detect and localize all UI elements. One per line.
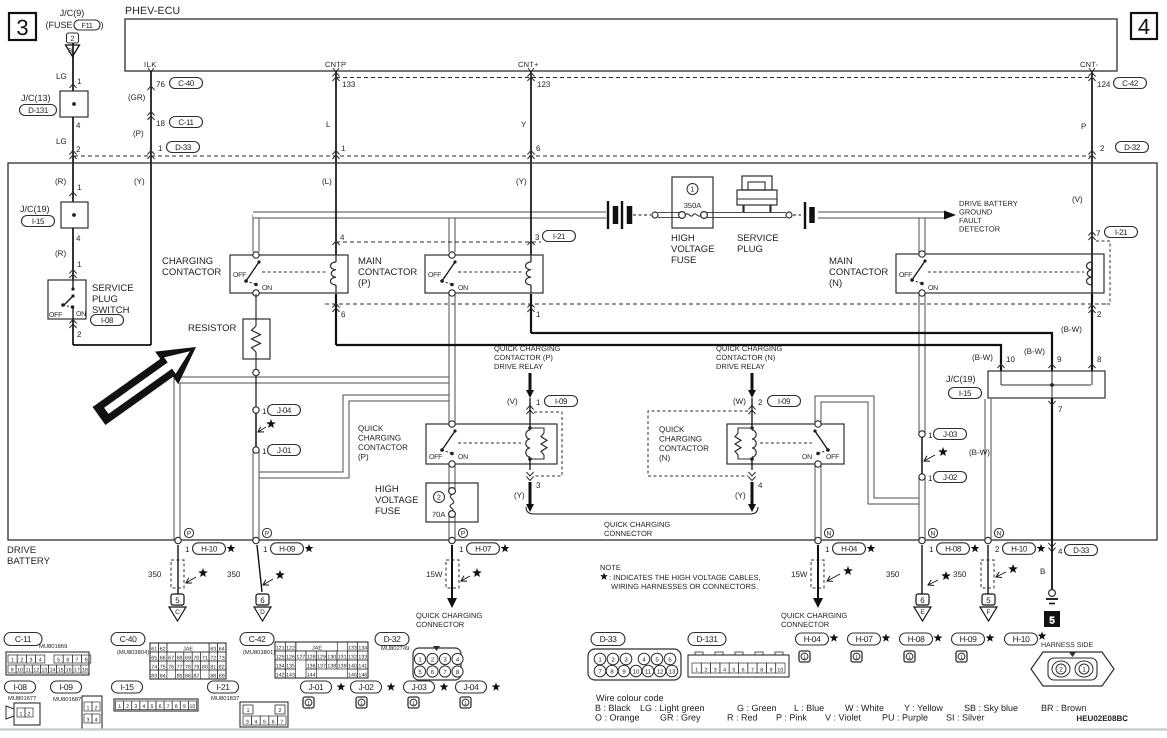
ECU pin exit mark at x=1092 [1089, 68, 1095, 72]
svg-text:MU801869: MU801869 [39, 643, 67, 650]
svg-text:133: 133 [348, 645, 357, 651]
svg-text:1: 1 [263, 545, 268, 554]
svg-text:(Y): (Y) [134, 177, 145, 186]
connector J-03 terminal [919, 431, 925, 437]
svg-text:9: 9 [183, 704, 186, 710]
svg-text:6: 6 [920, 596, 925, 605]
svg-text:9: 9 [1057, 355, 1062, 364]
dashed battery continuation [633, 214, 651, 216]
QC contactor N dashed label box [648, 411, 748, 476]
svg-text:7: 7 [167, 704, 170, 710]
svg-text:Y : Yellow: Y : Yellow [904, 703, 943, 713]
charging contactor internal dashed link [262, 271, 327, 273]
svg-text:(MU803804): (MU803804) [117, 649, 149, 656]
svg-text:E: E [920, 609, 925, 616]
svg-text:2: 2 [28, 711, 31, 717]
svg-text:7: 7 [280, 719, 283, 725]
svg-text:HEU02E08BC: HEU02E08BC [1076, 714, 1128, 723]
svg-text:1: 1 [87, 705, 90, 711]
svg-text:69: 69 [185, 655, 191, 661]
battery bar right [804, 202, 806, 229]
svg-text:4: 4 [1058, 547, 1063, 556]
svg-text:72: 72 [210, 655, 216, 661]
svg-text:(R): (R) [55, 177, 66, 186]
connector H-08 label [900, 633, 933, 645]
svg-text:QUICK CHARGING: QUICK CHARGING [604, 520, 670, 529]
svg-text:): ) [101, 20, 104, 30]
svg-text:V : Violet: V : Violet [825, 713, 861, 723]
svg-text:3: 3 [536, 481, 541, 490]
svg-text:I-09: I-09 [778, 397, 791, 406]
wire charging contactor coil to J/C(19) pin 10 (B-W) [335, 294, 337, 345]
svg-text:5: 5 [732, 667, 735, 673]
svg-text:D-33: D-33 [1073, 546, 1090, 555]
svg-text:123: 123 [537, 80, 551, 89]
svg-text:1: 1 [246, 708, 249, 714]
svg-text:CHARGING: CHARGING [358, 434, 401, 443]
svg-text:H-09: H-09 [960, 634, 977, 644]
svg-text:3: 3 [535, 233, 540, 242]
svg-text:84: 84 [160, 673, 166, 679]
main contactor P box [425, 255, 543, 293]
svg-text:MU801687: MU801687 [53, 696, 81, 703]
svg-text:BR : Brown: BR : Brown [1041, 703, 1087, 713]
svg-text:4: 4 [76, 234, 81, 243]
svg-text:6: 6 [66, 657, 69, 663]
svg-text:350A: 350A [684, 201, 702, 210]
svg-text:63: 63 [210, 646, 216, 652]
svg-text:ON: ON [928, 285, 938, 292]
svg-text:13: 13 [41, 667, 47, 673]
svg-text:124: 124 [1097, 80, 1111, 89]
svg-text:62: 62 [160, 646, 166, 652]
svg-text:L : Blue: L : Blue [794, 703, 824, 713]
wire main contactor P coil to J/C(19) pin 9 (B-W) [530, 294, 532, 333]
battery cell bars left [607, 201, 609, 229]
svg-text:D-32: D-32 [384, 634, 401, 644]
svg-text:1: 1 [536, 398, 541, 407]
svg-text:144: 144 [307, 672, 316, 678]
svg-text:130: 130 [327, 654, 336, 660]
svg-text:F: F [987, 609, 991, 616]
svg-text:CHARGING: CHARGING [659, 435, 702, 444]
svg-text:121: 121 [276, 645, 285, 651]
svg-text:(V): (V) [507, 397, 518, 406]
svg-text:1: 1 [1082, 666, 1086, 673]
main contactor P internal dashed link [458, 271, 523, 273]
pin number 123 [527, 73, 534, 82]
svg-text:1: 1 [908, 655, 911, 661]
arrow to drive battery ground fault detector [944, 211, 956, 220]
connector J-02 terminal [919, 474, 925, 480]
svg-text:C-11: C-11 [178, 118, 194, 127]
junction terminal below resistor [253, 369, 259, 375]
svg-text:(B-W): (B-W) [1024, 347, 1045, 356]
svg-text:D-131: D-131 [696, 634, 718, 644]
connector I-09 pinout [51, 681, 82, 693]
svg-text:4: 4 [39, 657, 42, 663]
svg-text:CNT-: CNT- [1080, 60, 1099, 69]
svg-text:OFF: OFF [49, 312, 62, 319]
svg-text:ON: ON [802, 454, 812, 461]
hollow cable QC-N switch top loop to H-08 line [818, 399, 920, 501]
svg-text:10: 10 [777, 667, 783, 673]
svg-text:125: 125 [276, 654, 285, 660]
junction block J/C(19) I-15 left [61, 202, 88, 228]
arrow to quick charging connector H-07 [447, 598, 457, 608]
svg-text:85: 85 [177, 673, 183, 679]
page reference 6 box and triangle E for H-08 [916, 594, 929, 605]
main contactor P coil [530, 255, 532, 262]
svg-text:4: 4 [95, 717, 98, 723]
svg-text:I-15: I-15 [32, 217, 45, 226]
svg-text:WIRING HARNESSES OR CONNECTORS: WIRING HARNESSES OR CONNECTORS. [611, 582, 758, 591]
svg-text:15W: 15W [426, 570, 443, 579]
wire service plug switch to ILK corner [72, 319, 74, 345]
svg-text:H-07: H-07 [475, 545, 492, 554]
svg-text:MAIN: MAIN [829, 256, 853, 267]
svg-text:H-08: H-08 [908, 634, 925, 644]
svg-text:136: 136 [307, 663, 316, 669]
svg-text:1: 1 [536, 310, 541, 319]
svg-text:FUSE: FUSE [375, 506, 400, 517]
svg-text:J-04: J-04 [277, 406, 292, 415]
svg-text:(MU803801): (MU803801) [243, 649, 275, 656]
svg-text:I-15: I-15 [959, 389, 972, 398]
quick charging connector brace [526, 507, 758, 514]
svg-text:J/C(13): J/C(13) [21, 93, 51, 103]
hollow cable main P switch to quick charging contactor P switch [449, 294, 456, 423]
svg-text:L: L [326, 120, 331, 129]
connector J-04 label [456, 681, 487, 693]
svg-text:(V): (V) [1072, 195, 1083, 204]
svg-text:6: 6 [742, 667, 745, 673]
main contactor N switch [919, 251, 925, 257]
svg-text:3: 3 [30, 657, 33, 663]
svg-text:134: 134 [276, 663, 285, 669]
svg-text:(P): (P) [358, 278, 371, 289]
hollow cable battery to high voltage fuse 1 [658, 212, 680, 218]
H-07 crossing (P) [449, 537, 455, 543]
svg-text:OFF: OFF [428, 272, 441, 279]
wire resistor to bus junction [255, 359, 257, 369]
svg-text:I-08: I-08 [101, 316, 114, 325]
svg-text:87: 87 [193, 673, 199, 679]
svg-text:15W: 15W [791, 570, 808, 579]
svg-text:W : White: W : White [845, 703, 884, 713]
svg-text:I-15: I-15 [120, 682, 134, 692]
QC contactor N switch (mirrored) [815, 421, 821, 427]
svg-text:350: 350 [148, 570, 162, 579]
svg-text:Y: Y [521, 120, 527, 129]
svg-text:5: 5 [1049, 616, 1055, 627]
wire CNT- vertical (P/V) [1091, 71, 1093, 306]
svg-text:129: 129 [317, 654, 326, 660]
hollow cable QC-N switch to H-04 [815, 465, 822, 540]
svg-text:143: 143 [286, 672, 295, 678]
wire CNT+ vertical (Y) [530, 71, 532, 255]
svg-text:CONNECTOR: CONNECTOR [416, 620, 465, 629]
svg-text:17: 17 [74, 667, 80, 673]
connector D-33 pinout [591, 633, 625, 646]
wire ILK vertical (GR/P/Y) [150, 71, 152, 345]
svg-text:1: 1 [77, 260, 82, 269]
svg-text:CONTACTOR (N): CONTACTOR (N) [716, 353, 776, 362]
svg-text:D-32: D-32 [1124, 143, 1141, 152]
svg-text:I-09: I-09 [555, 397, 568, 406]
connector dashed line H connectors (y=304) [325, 303, 1110, 305]
svg-text:12: 12 [33, 667, 39, 673]
svg-text:NOTE: NOTE [600, 563, 621, 572]
svg-text:3: 3 [16, 15, 28, 40]
svg-text:OFF: OFF [826, 454, 839, 461]
QC contactor P box [426, 424, 557, 464]
QC contactor N box [727, 424, 844, 464]
svg-text:82: 82 [219, 664, 225, 670]
svg-text:11: 11 [645, 669, 652, 676]
svg-text:1: 1 [464, 701, 467, 707]
ground symbol [1049, 590, 1056, 597]
hollow cable riser main contactor P to battery bus [449, 215, 456, 252]
svg-text:J-02: J-02 [943, 473, 958, 482]
wire 7 from J/C(19) down (B-W) to D-33 [1051, 398, 1053, 540]
svg-text:J-03: J-03 [943, 430, 958, 439]
jumper wire J-03 to J-02 with star [921, 437, 923, 474]
svg-text:(B-W): (B-W) [969, 448, 990, 457]
svg-text:7: 7 [751, 667, 754, 673]
svg-text:QUICK CHARGING: QUICK CHARGING [781, 611, 847, 620]
hollow cable main N switch to J-03 [919, 294, 926, 433]
wire from fuse to J/C(13) (LG) [72, 43, 74, 91]
resistor RESISTOR [243, 319, 270, 359]
svg-text:5: 5 [986, 596, 991, 605]
ECU pin exit mark at x=336 [333, 68, 339, 72]
svg-text:P: P [187, 530, 191, 537]
svg-text:N: N [997, 530, 1002, 537]
svg-text:QUICK CHARGING: QUICK CHARGING [494, 344, 560, 353]
svg-text:Wire colour code: Wire colour code [596, 693, 664, 703]
svg-text:C-11: C-11 [15, 634, 32, 644]
H-04 crossing (N) [815, 537, 821, 543]
svg-text:J-04: J-04 [464, 682, 480, 692]
svg-text:CNTP: CNTP [325, 60, 346, 69]
terminal circle before fuse 1 [652, 212, 658, 218]
svg-text:128: 128 [307, 654, 316, 660]
ECU pin exit mark at x=531 [528, 68, 534, 72]
page reference 5 box and triangle C for H-10 [171, 594, 184, 605]
svg-text:C-40: C-40 [120, 634, 137, 644]
svg-text:2: 2 [126, 704, 129, 710]
svg-text:1: 1 [825, 545, 830, 554]
hollow cable QC-P switch to fuse 2 [449, 465, 456, 490]
svg-text:1: 1 [929, 545, 934, 554]
connector I-15 pinout [112, 681, 143, 693]
svg-text:(W): (W) [733, 397, 746, 406]
hollow cable riser main contactor N [919, 215, 926, 252]
connector D-32 pinout [375, 633, 409, 646]
QC contactor P internal dashed link [458, 442, 521, 444]
svg-text:ON: ON [262, 285, 272, 292]
svg-text:HIGH: HIGH [671, 233, 695, 244]
svg-text:70: 70 [193, 655, 199, 661]
svg-text:75: 75 [160, 664, 166, 670]
svg-text:LG: LG [56, 72, 67, 81]
arrow to quick charging connector H-04 [813, 598, 823, 608]
hollow cable fuse 1 to service plug to battery bar [706, 212, 786, 218]
hollow cable bus from resistor junction to main P riser and drop to H-10 [177, 380, 452, 540]
connector H-09 label [952, 633, 985, 645]
svg-text:(Y): (Y) [735, 491, 746, 500]
svg-text:4: 4 [254, 719, 257, 725]
svg-text:(B-W): (B-W) [1061, 325, 1082, 334]
svg-text:15: 15 [58, 667, 64, 673]
svg-text:O : Orange: O : Orange [595, 713, 640, 723]
svg-text:8: 8 [175, 704, 178, 710]
svg-text:133: 133 [358, 654, 367, 660]
svg-text:CONTACTOR: CONTACTOR [162, 267, 221, 278]
svg-text:DRIVE RELAY: DRIVE RELAY [494, 362, 543, 371]
svg-text:QUICK: QUICK [358, 424, 384, 433]
connector C-40 pinout [111, 633, 145, 646]
svg-text:1: 1 [855, 655, 858, 661]
svg-text:(Y): (Y) [514, 491, 525, 500]
svg-text:H-08: H-08 [945, 545, 962, 554]
svg-text:(R): (R) [55, 249, 66, 258]
svg-text:9: 9 [770, 667, 773, 673]
svg-text:135: 135 [286, 663, 295, 669]
drive battery enclosure box [8, 163, 1157, 540]
svg-text:J-03: J-03 [412, 682, 428, 692]
svg-text:QUICK: QUICK [659, 425, 685, 434]
QC contactor P coil with resistor [529, 398, 531, 428]
svg-text:1: 1 [412, 701, 415, 707]
svg-text:1: 1 [262, 447, 267, 456]
svg-text:J-02: J-02 [359, 682, 375, 692]
svg-text:PLUG: PLUG [92, 294, 118, 305]
svg-text:76: 76 [156, 80, 165, 89]
connector H-07 label [848, 633, 881, 645]
svg-text:CONTACTOR (P): CONTACTOR (P) [494, 353, 553, 362]
svg-text:1: 1 [695, 667, 698, 673]
svg-text:1: 1 [185, 545, 190, 554]
svg-text:ON: ON [458, 454, 468, 461]
svg-text:80: 80 [202, 664, 208, 670]
connector J-03 label [404, 681, 435, 693]
svg-text:2: 2 [70, 34, 74, 43]
svg-text:CONTACTOR: CONTACTOR [829, 267, 888, 278]
svg-text:I-21: I-21 [553, 232, 566, 241]
svg-text:HARNESS SIDE: HARNESS SIDE [1041, 642, 1093, 649]
svg-text:1: 1 [459, 545, 464, 554]
svg-text:68: 68 [177, 655, 183, 661]
svg-text:B: B [1040, 567, 1045, 576]
svg-text:7: 7 [1058, 405, 1063, 414]
svg-text:FUSE: FUSE [671, 255, 696, 266]
svg-text:5: 5 [175, 596, 180, 605]
svg-text:141: 141 [358, 663, 367, 669]
page reference 5 box and triangle F for H-10 right [982, 594, 995, 605]
svg-text:2: 2 [437, 494, 441, 501]
svg-text:10: 10 [189, 704, 195, 710]
QC contactor N coil with resistor [751, 398, 753, 428]
svg-text:H-10: H-10 [1011, 545, 1028, 554]
svg-text:138: 138 [327, 663, 336, 669]
hollow cable J-01 to H-09 [253, 452, 260, 540]
harness side connector drawing [1031, 652, 1114, 686]
pin number 124 and connector C-42 [1088, 73, 1095, 82]
H-10 right crossing (N) pin 2 [985, 537, 991, 543]
svg-text:2: 2 [76, 145, 81, 154]
svg-text:1: 1 [262, 407, 267, 416]
svg-text:H-09: H-09 [279, 545, 296, 554]
svg-text:145: 145 [348, 672, 357, 678]
svg-text:: INDICATES THE HIGH VOLTAGE C: : INDICATES THE HIGH VOLTAGE CABLES, [609, 573, 761, 582]
hollow cable staircase feed to quick charging contactor P switch [257, 398, 452, 475]
H-08 crossing (N) [919, 537, 925, 543]
svg-text:61: 61 [151, 646, 157, 652]
main contactor N coil [1091, 254, 1093, 262]
svg-text:MU802749: MU802749 [381, 645, 409, 652]
svg-text:CONTACTOR: CONTACTOR [358, 267, 417, 278]
page reference 6 box and triangle D for H-09 [256, 594, 269, 605]
svg-text:11: 11 [26, 667, 32, 673]
page bottom rule [0, 728, 1167, 730]
large pointer arrow at resistor [93, 347, 196, 425]
svg-text:H-10: H-10 [201, 545, 218, 554]
connector J-01 terminal [253, 447, 259, 453]
svg-text:MU801677: MU801677 [8, 695, 36, 702]
svg-text:B : Black: B : Black [595, 703, 631, 713]
pin number 133 [332, 73, 339, 82]
QC contactor P drive relay arrow (V) [529, 373, 532, 391]
terminal circle after service plug [786, 212, 792, 218]
junction block J/C(13) D-131 [60, 91, 88, 117]
svg-text:SI : Silver: SI : Silver [946, 713, 985, 723]
svg-text:1: 1 [307, 701, 310, 707]
svg-text:83: 83 [151, 673, 157, 679]
svg-text:12: 12 [657, 669, 664, 676]
svg-text:J/C(19): J/C(19) [20, 204, 50, 214]
svg-text:DRIVE RELAY: DRIVE RELAY [716, 362, 765, 371]
svg-text:126: 126 [286, 654, 295, 660]
svg-text:JAE: JAE [183, 646, 193, 652]
svg-text:PHEV-ECU: PHEV-ECU [125, 5, 180, 17]
arrow to quick charging connector (P) [529, 482, 532, 505]
svg-text:1: 1 [118, 704, 121, 710]
fuse pin 2 box [67, 33, 79, 43]
pin 4 (Y) below QC-N coil [748, 472, 755, 481]
svg-text:QUICK CHARGING: QUICK CHARGING [416, 611, 482, 620]
svg-text:J/C(9): J/C(9) [60, 8, 85, 18]
svg-text:127: 127 [296, 654, 305, 660]
svg-text:71: 71 [202, 655, 208, 661]
pin number 76 and connector C-40 [147, 86, 154, 90]
svg-text:(GR): (GR) [128, 93, 146, 102]
svg-text:SERVICE: SERVICE [92, 283, 134, 294]
svg-text:2: 2 [1097, 310, 1102, 319]
svg-text:10: 10 [1006, 355, 1015, 364]
svg-text:3: 3 [87, 717, 90, 723]
svg-text:2: 2 [995, 545, 1000, 554]
svg-text:2: 2 [758, 398, 763, 407]
wire J/C(13) to boundary (LG) [72, 117, 74, 163]
svg-text:DETECTOR: DETECTOR [959, 225, 1001, 234]
hollow cable battery bus right to ground fault detector [818, 212, 944, 219]
svg-text:350: 350 [886, 570, 900, 579]
svg-text:H-10: H-10 [1013, 634, 1030, 644]
svg-text:4: 4 [340, 233, 345, 242]
svg-text:4: 4 [76, 121, 81, 130]
